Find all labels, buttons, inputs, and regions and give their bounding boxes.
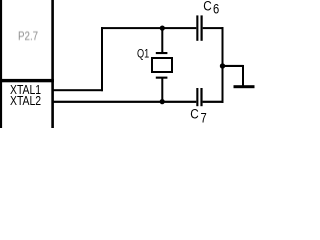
wire XTAL1 pin to riser: [54, 89, 104, 91]
wire riser up to top rail: [101, 27, 103, 91]
pin label P2.7: [18, 30, 38, 43]
capacitor C6 left plate: [196, 15, 198, 40]
IC U1 right edge: [51, 0, 54, 128]
wire XTAL2 net right segment (C7 to right rail): [203, 101, 224, 103]
svg-text:6: 6: [213, 2, 219, 17]
svg-text:Q1: Q1: [137, 49, 149, 61]
svg-text:XTAL2: XTAL2: [10, 93, 41, 109]
capacitor C7 left plate: [196, 88, 198, 106]
pin label XTAL1: [10, 82, 41, 98]
svg-text:P2.7: P2.7: [18, 30, 38, 43]
IC U1 left edge: [0, 0, 2, 128]
label C6: [203, 0, 211, 14]
IC U1 section divider: [0, 79, 54, 82]
pin label XTAL2: [10, 93, 41, 109]
wire right rail vertical: [222, 27, 224, 103]
wire top rail left segment (riser to C6): [101, 27, 196, 29]
wire top rail right segment (C6 to right rail): [203, 27, 224, 29]
wire ground stub vertical: [242, 65, 244, 86]
capacitor C7 right plate: [200, 88, 202, 106]
capacitor C6 right plate: [201, 15, 203, 40]
wire XTAL2 net left segment (pin to C7): [54, 101, 197, 103]
node junction dot right rail: [220, 63, 225, 68]
svg-text:C: C: [203, 0, 211, 14]
ground: [234, 85, 255, 88]
wire ground stub horizontal: [223, 65, 244, 67]
svg-text:7: 7: [201, 110, 207, 125]
wire stub crystal to XTAL2 net: [161, 78, 163, 102]
svg-text:C: C: [190, 106, 198, 122]
crystal Q1 bottom plate: [156, 77, 168, 79]
label Q1: [137, 49, 149, 61]
node junction dot top of crystal: [160, 26, 165, 31]
node junction dot bottom of crystal: [160, 99, 165, 104]
crystal Q1 body: [152, 58, 172, 72]
wire stub top rail to crystal: [161, 28, 163, 52]
crystal Q1 top plate: [156, 52, 168, 54]
label C7: [190, 106, 198, 122]
